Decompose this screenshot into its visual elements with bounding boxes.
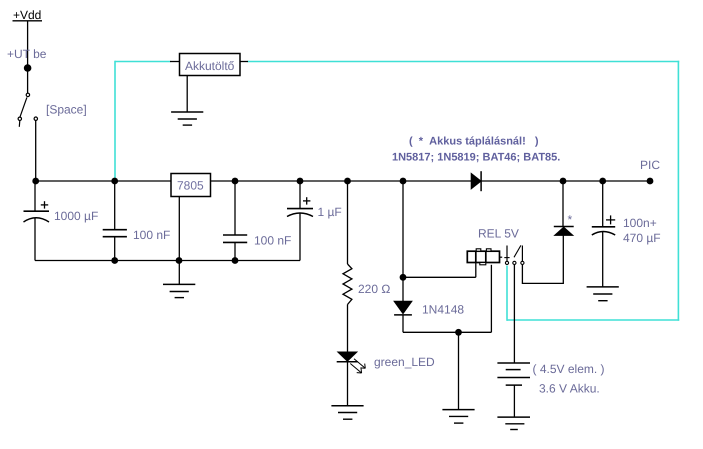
cyan net: top horizontal left segment [115, 61, 171, 63]
junction dot bus/C5 [599, 178, 606, 185]
junction dot lower bus/gnd [176, 257, 183, 264]
svg-text:1000 µF: 1000 µF [54, 209, 98, 223]
capacitor C2 100nF [103, 181, 127, 261]
ground below bottom rail [442, 410, 474, 424]
svg-text:100n+: 100n+ [623, 216, 657, 230]
resistor R1 220 ohm [343, 181, 352, 352]
power +Vdd label [13, 8, 43, 22]
junction dot lower bus/C3 [232, 257, 239, 264]
svg-text:REL 5V: REL 5V [478, 227, 519, 241]
junction dot bus/switch/C1 [32, 178, 39, 185]
junction dot bus/D3 [560, 178, 567, 185]
wire branch to relay coil left pin [403, 276, 476, 278]
svg-text:220 Ω: 220 Ω [358, 282, 390, 296]
capacitor C4 1uF electrolytic [287, 181, 313, 261]
junction dot bus/C4 [297, 178, 304, 185]
wire from +Vdd down to switch [27, 21, 29, 93]
battery B1 [497, 363, 530, 417]
svg-text:green_LED: green_LED [374, 355, 435, 369]
main bus wire diode to PIC [481, 180, 650, 182]
svg-text:PIC: PIC [640, 158, 660, 172]
ground below C5 [587, 287, 619, 301]
wire middle contact down to battery [513, 265, 515, 363]
relay coil K1 [467, 249, 502, 265]
junction dot lower bus/C2 [111, 257, 118, 264]
cyan net: top horizontal right segment [248, 61, 680, 63]
regulator U1 7805 [171, 174, 211, 261]
cyan net: right vertical [677, 61, 679, 321]
relay contact: left throw with tick [504, 246, 509, 265]
diode D3 (starred, points up) [554, 181, 574, 235]
svg-text:+UT be: +UT be [7, 47, 47, 61]
svg-text:*: * [568, 213, 573, 227]
svg-text:1N5817; 1N5819; BAT46; BAT85.: 1N5817; 1N5819; BAT46; BAT85. [392, 151, 560, 163]
svg-text:7805: 7805 [177, 179, 204, 193]
cyan net: vertical to relay contact [506, 266, 508, 321]
main bus wire 7805 to diode [211, 180, 472, 182]
LED green_LED [337, 352, 366, 373]
svg-text:1N4148: 1N4148 [422, 303, 464, 317]
capacitor C1 1000uF electrolytic [24, 181, 50, 261]
ground below LED [331, 362, 363, 419]
capacitor C5 100n+/470uF electrolytic [592, 181, 615, 287]
svg-text:3.6 V Akku.: 3.6 V Akku. [539, 382, 600, 396]
switch SW1 [Space] [18, 93, 37, 127]
svg-text:100 nF: 100 nF [254, 234, 291, 248]
relay contact: right pole and blade [514, 245, 524, 264]
ground below 7805 [163, 261, 195, 298]
wire down to ground [458, 332, 460, 409]
relay contact: middle contact [513, 261, 516, 264]
ground below Akkutolto [171, 76, 203, 126]
wire relay coil left pin [475, 263, 477, 278]
junction dot +UT be node [24, 64, 32, 72]
svg-text:[Space]: [Space] [46, 103, 87, 117]
main bus wire left of 7805 [36, 180, 171, 182]
wire D1 to bottom rail [402, 315, 404, 332]
wire bus down to D1/relay branch [402, 181, 404, 301]
wire relay coil right pin down [490, 265, 492, 333]
junction dot relay coil branch [400, 274, 407, 281]
ground below battery [497, 417, 530, 429]
svg-text:100 nF: 100 nF [133, 228, 170, 242]
svg-text:( * Akkus táplálásnál! ): ( * Akkus táplálásnál! ) [409, 136, 539, 148]
junction dot bus/C2/cyan [111, 178, 118, 185]
svg-text:+Vdd: +Vdd [13, 8, 41, 22]
diode D1 1N4148 [394, 301, 412, 315]
svg-text:470 µF: 470 µF [623, 231, 661, 245]
junction dot bus/C3 [232, 178, 239, 185]
lower bus wire [35, 260, 300, 262]
cyan net: bottom horizontal [507, 319, 679, 321]
wire right contact to D3 anode [522, 236, 563, 284]
diode D2 1N5817 on bus [471, 171, 481, 191]
svg-text:1 µF: 1 µF [318, 205, 342, 219]
bottom rail wire D1 to relay right pin [403, 331, 491, 333]
cyan net: left vertical from Akkutolto line down to main bus [114, 61, 116, 180]
capacitor C3 100nF [223, 181, 247, 261]
svg-text:( 4.5V elem. ): ( 4.5V elem. ) [533, 362, 605, 376]
wire switch to main bus [35, 121, 37, 182]
block Akkutolto [170, 54, 248, 76]
svg-text:Akkutöltő: Akkutöltő [185, 59, 235, 73]
junction dot bottom rail/gnd [455, 329, 462, 336]
junction dot bus/D1 branch [400, 178, 407, 185]
junction dot bus/R1 [344, 178, 351, 185]
terminal dot PIC [647, 178, 654, 185]
